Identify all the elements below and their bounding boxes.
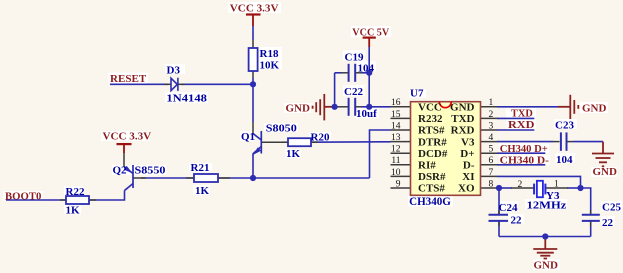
svg-text:1: 1 xyxy=(554,180,559,190)
svg-text:10uf: 10uf xyxy=(356,108,377,120)
svg-text:GND: GND xyxy=(534,259,559,271)
svg-text:22: 22 xyxy=(602,217,614,229)
IC U7 body xyxy=(411,102,481,196)
svg-text:Q2: Q2 xyxy=(113,165,128,177)
resistor R21 xyxy=(194,174,218,182)
ground GND (below C23) xyxy=(592,142,614,167)
svg-text:BOOT0: BOOT0 xyxy=(5,190,42,202)
resistor R20 xyxy=(288,138,311,146)
capacitor C23 xyxy=(561,132,567,150)
wire pin 13 stub xyxy=(391,141,411,143)
wire BOOT0 net xyxy=(6,199,66,201)
node bottom GND xyxy=(542,233,548,239)
wire C23 leads xyxy=(553,141,560,143)
wire crystal row left xyxy=(497,187,512,189)
wire pin 1 stub xyxy=(481,106,498,108)
wire C19 row left xyxy=(335,72,342,74)
svg-text:GND: GND xyxy=(286,102,311,114)
svg-text:1K: 1K xyxy=(195,185,210,197)
wire pin7 to crystal right xyxy=(497,176,581,188)
svg-text:GND: GND xyxy=(450,102,475,114)
capacitor C25 xyxy=(582,215,600,221)
svg-text:10: 10 xyxy=(391,168,401,178)
wire pin 12 stub xyxy=(391,152,411,154)
svg-text:R18: R18 xyxy=(260,48,279,60)
transistor Q1 (S8050 NPN) xyxy=(253,131,261,154)
svg-text:8: 8 xyxy=(489,179,494,189)
diode D3 xyxy=(171,78,178,91)
svg-text:XO: XO xyxy=(458,183,475,195)
wire C24 column xyxy=(498,188,500,214)
wire node to riser xyxy=(253,177,370,179)
wire Q2 collector down xyxy=(89,191,125,201)
svg-text:5: 5 xyxy=(489,145,494,155)
svg-text:CH340G: CH340G xyxy=(409,194,451,208)
svg-text:DSR#: DSR# xyxy=(418,171,446,183)
svg-text:DCD#: DCD# xyxy=(418,148,448,160)
wire pin 16 stub xyxy=(391,106,411,108)
svg-text:C22: C22 xyxy=(344,86,363,98)
wire C22 leads xyxy=(337,106,348,108)
wire bottom rail xyxy=(499,236,591,238)
wire pin 6 stub xyxy=(481,164,498,166)
node main line xyxy=(250,175,256,181)
wire left rail xyxy=(334,73,336,107)
wire pin1 to GND xyxy=(497,106,558,108)
svg-text:CTS#: CTS# xyxy=(418,183,445,195)
wire C23 to GND xyxy=(573,141,603,143)
svg-text:U7: U7 xyxy=(410,87,424,99)
wire pin4 to C23 xyxy=(497,141,553,143)
wire Q1 base lead xyxy=(262,141,288,143)
svg-text:VCC 5V: VCC 5V xyxy=(352,26,389,38)
wire C25 bottom xyxy=(590,221,592,236)
wire node to Q1 collector xyxy=(252,84,254,122)
wire R18 top lead xyxy=(252,40,254,48)
wire R21 to node xyxy=(218,177,253,179)
wire R18 lead lower xyxy=(252,71,254,78)
wire TXD net xyxy=(497,117,534,119)
wire pin 8 stub xyxy=(481,187,498,189)
wire RESET net xyxy=(110,83,168,85)
svg-text:D-: D- xyxy=(463,160,475,172)
svg-text:XI: XI xyxy=(462,171,474,183)
node GND rail xyxy=(332,104,338,110)
ground GND (pin1) xyxy=(558,95,578,119)
wire pin 3 stub xyxy=(481,129,498,131)
svg-text:9: 9 xyxy=(396,179,401,189)
resistor R22 xyxy=(66,196,89,204)
svg-text:104: 104 xyxy=(358,62,375,74)
svg-text:104: 104 xyxy=(556,154,573,166)
svg-text:VCC: VCC xyxy=(418,102,442,114)
svg-text:TXD: TXD xyxy=(511,108,533,120)
svg-text:R21: R21 xyxy=(191,162,210,174)
wire Q1 collector lead xyxy=(252,122,254,134)
wire C24 leads xyxy=(498,210,500,214)
wire R20 to pin13 xyxy=(311,141,391,143)
wire pin 4 stub xyxy=(481,141,498,143)
wire pin 10 stub xyxy=(391,175,411,177)
svg-text:GND: GND xyxy=(582,103,607,115)
svg-text:RI#: RI# xyxy=(418,160,436,172)
svg-text:1K: 1K xyxy=(66,205,81,217)
wire pin 2 stub xyxy=(481,117,498,119)
svg-text:GND: GND xyxy=(593,166,618,178)
wire C25 leads xyxy=(590,210,592,214)
svg-text:7: 7 xyxy=(489,168,494,178)
svg-text:13: 13 xyxy=(391,133,401,143)
svg-text:15: 15 xyxy=(391,110,401,120)
node C19 right xyxy=(366,70,372,76)
wire CH340D+ net xyxy=(497,152,545,154)
wire VCC3.3 stem xyxy=(252,26,254,41)
svg-text:CH340 D+: CH340 D+ xyxy=(500,143,548,155)
wire C24 bottom xyxy=(498,221,500,236)
wire C19 row right xyxy=(362,72,370,74)
wire Q2 base to R21 xyxy=(141,177,194,179)
wire node to C25 column xyxy=(581,188,591,214)
svg-text:2: 2 xyxy=(518,180,523,190)
wire R20 leads xyxy=(282,141,288,143)
wire D3 leads xyxy=(164,83,171,85)
crystal Y3 xyxy=(534,181,545,197)
svg-text:4: 4 xyxy=(489,133,494,143)
svg-text:RESET: RESET xyxy=(110,73,147,85)
capacitor C22 xyxy=(349,98,356,116)
svg-text:C25: C25 xyxy=(602,202,621,214)
capacitor C24 xyxy=(489,215,509,221)
node XTAL left xyxy=(496,185,502,191)
svg-text:VCC 3.3V: VCC 3.3V xyxy=(103,131,152,143)
svg-text:C24: C24 xyxy=(499,202,518,214)
power VCC 5V xyxy=(363,38,376,47)
U7 notch arc xyxy=(439,102,451,108)
svg-text:1N4148: 1N4148 xyxy=(166,93,207,105)
wire C22 row left xyxy=(335,106,337,108)
svg-text:R22: R22 xyxy=(66,186,85,198)
svg-text:10K: 10K xyxy=(260,59,280,71)
wire Y3 leads xyxy=(511,187,534,189)
svg-text:R232: R232 xyxy=(418,113,443,125)
power VCC 3.3V (R18) xyxy=(246,15,261,27)
wire pin 14 stub xyxy=(391,129,411,131)
wire C22 to pin16 xyxy=(362,106,391,108)
wire RXD net xyxy=(497,129,534,131)
svg-text:D3: D3 xyxy=(167,65,181,77)
ground GND (bottom) xyxy=(533,237,557,259)
transistor Q2 (S8550 PNP) xyxy=(124,165,133,191)
ground GND (left of C22) xyxy=(313,94,335,120)
wire R18 bottom lead xyxy=(252,78,254,84)
wire R21 leads xyxy=(186,177,194,179)
svg-text:16: 16 xyxy=(391,98,401,108)
svg-text:RXD: RXD xyxy=(508,119,534,131)
power VCC 3.3V (Q2) xyxy=(117,144,132,153)
svg-text:12: 12 xyxy=(391,145,401,155)
wire pin 11 stub xyxy=(391,164,411,166)
node C22 right xyxy=(366,104,372,110)
svg-text:V3: V3 xyxy=(461,136,475,148)
wire crystal row right xyxy=(567,187,581,189)
svg-text:11: 11 xyxy=(391,156,400,166)
node RESET/R18 xyxy=(250,81,256,87)
svg-text:1K: 1K xyxy=(286,148,301,160)
svg-text:22: 22 xyxy=(511,215,523,227)
wire D3 cathode to node xyxy=(181,83,253,85)
wire Q1 emitter down xyxy=(252,154,254,179)
svg-text:1: 1 xyxy=(489,98,494,108)
svg-text:TXD: TXD xyxy=(451,113,474,125)
wire VCC5V rail xyxy=(368,46,370,106)
svg-text:DTR#: DTR# xyxy=(418,136,447,148)
svg-text:14: 14 xyxy=(391,121,401,131)
wire pin 5 stub xyxy=(481,152,498,154)
resistor R18 xyxy=(249,48,258,71)
svg-text:RTS#: RTS# xyxy=(418,125,445,137)
wire Q2 emitter lead xyxy=(123,153,125,167)
svg-text:C23: C23 xyxy=(555,120,574,132)
wire Q2 base lead xyxy=(134,177,147,179)
svg-text:6: 6 xyxy=(489,156,494,166)
wire C19 leads xyxy=(342,72,349,74)
svg-text:2: 2 xyxy=(489,110,494,120)
wire riser to pin14 xyxy=(370,130,391,178)
wire R22 leads xyxy=(60,199,66,201)
capacitor C19 xyxy=(349,64,356,82)
svg-text:S8550: S8550 xyxy=(135,165,167,177)
svg-text:RXD: RXD xyxy=(451,125,475,137)
svg-text:12MHz: 12MHz xyxy=(527,199,567,211)
svg-text:VCC 3.3V: VCC 3.3V xyxy=(230,2,279,14)
svg-text:3: 3 xyxy=(489,121,494,131)
wire pin 7 stub xyxy=(481,175,498,177)
wire pin 9 stub xyxy=(391,187,411,189)
svg-text:D+: D+ xyxy=(460,148,474,160)
svg-text:Q1: Q1 xyxy=(241,131,255,143)
svg-text:R20: R20 xyxy=(311,131,330,143)
svg-text:S8050: S8050 xyxy=(266,122,298,134)
wire pin 15 stub xyxy=(391,117,411,119)
wire CH340D- net xyxy=(497,164,545,166)
node XTAL right xyxy=(577,185,583,191)
svg-text:CH340 D-: CH340 D- xyxy=(500,155,550,167)
